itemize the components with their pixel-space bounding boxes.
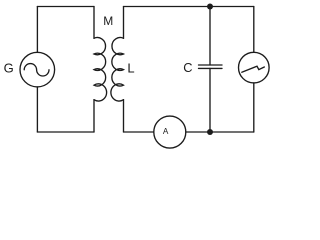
wire: right branch lower [253, 83, 255, 132]
wire: left loop right lower [93, 100, 95, 132]
thermal meter sawtooth symbol [242, 66, 264, 72]
wire: left loop right upper [93, 7, 95, 39]
node: top junction [207, 4, 213, 10]
capacitor C bottom lead [209, 68, 211, 132]
inductor L secondary winding [111, 38, 124, 101]
svg-text:C: C [183, 60, 192, 75]
svg-text:M: M [103, 14, 113, 28]
svg-text:G: G [4, 60, 14, 75]
wire: left loop left lower [36, 87, 38, 132]
wire: right loop left lower [123, 100, 125, 132]
thermal meter circle [239, 52, 270, 83]
ammeter A1 circle [154, 116, 186, 148]
wire: right loop left upper [123, 7, 125, 39]
capacitor C plates [199, 65, 223, 68]
wire: bottom left of ammeter [124, 131, 154, 133]
inductor primary winding [94, 38, 107, 101]
svg-text:A: A [163, 127, 169, 136]
wire: right branch upper [253, 7, 255, 53]
wire: left loop left upper [36, 7, 38, 53]
capacitor C top lead [209, 7, 211, 66]
node: bottom junction [207, 129, 213, 135]
svg-text:L: L [127, 60, 134, 75]
generator G1 circle [20, 52, 55, 87]
wire: left loop bottom [37, 131, 94, 133]
wire: right loop top [124, 6, 254, 8]
wire: bottom right of ammeter [186, 131, 254, 133]
generator G1 sine [24, 64, 49, 76]
wire: left loop top [37, 6, 94, 8]
